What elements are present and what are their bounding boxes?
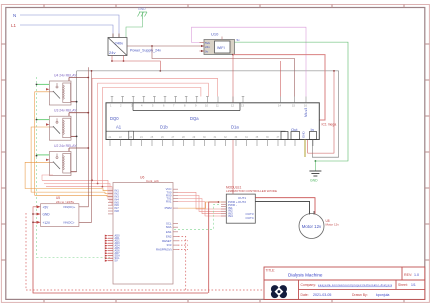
L298 top pin stub <box>232 190 234 194</box>
U6 controller pcb <box>113 176 173 284</box>
svg-text:GND: GND <box>302 131 306 139</box>
svg-text:DQ0: DQ0 <box>110 116 119 121</box>
wire red from wifi bottom to IC right pin <box>233 55 325 120</box>
svg-text:IN4: IN4 <box>228 214 233 218</box>
relay U3 <box>49 109 77 141</box>
IC1 top pins <box>111 97 306 103</box>
junction <box>159 70 161 72</box>
IC1 bottom pins <box>110 140 313 147</box>
svg-text:OUT2: OUT2 <box>238 200 246 204</box>
U6 right pin labels group1 <box>165 187 173 210</box>
svg-text:5v: 5v <box>237 38 241 42</box>
junction <box>36 84 38 86</box>
wire PSU bottom pin L to red rail <box>111 56 113 62</box>
svg-text:GND: GND <box>310 179 318 183</box>
relay U4 <box>49 74 77 106</box>
wire wifi bottom red down into IC top pin <box>232 55 234 103</box>
green dashed from U6 to L298 ENA <box>174 204 221 229</box>
IC1 bottom yellow stub <box>304 140 306 158</box>
junction <box>36 155 38 157</box>
wire red rail <box>112 61 160 71</box>
wire U5 +5V stub <box>33 207 37 223</box>
svg-text:VIN(DC)-: VIN(DC)- <box>63 221 75 225</box>
red dashed from U6 right down <box>178 237 186 291</box>
wire salmon bus 2 <box>44 183 98 185</box>
wire orange relay3 NO to U6 <box>25 162 113 190</box>
svg-text:Company:: Company: <box>301 283 317 287</box>
U6 right pin stubs group2 <box>173 224 178 250</box>
svg-text:1.0: 1.0 <box>414 273 419 277</box>
wire salmon U6 to L298 pins <box>178 192 226 209</box>
wire red hook into IC bottom <box>280 61 282 97</box>
wire green from wifi out, down right side, to gnd junction <box>235 42 349 161</box>
logo <box>271 285 287 298</box>
svg-text:L298 MOTOR CONTROLLER W/ODE: L298 MOTOR CONTROLLER W/ODE <box>226 189 277 193</box>
wire red through under IC down to L298 <box>232 140 234 195</box>
junction <box>218 201 220 203</box>
junction <box>32 221 34 223</box>
wire U5 +12V to bottom red <box>33 222 208 293</box>
junction <box>36 119 38 121</box>
svg-text:OUT4: OUT4 <box>245 216 253 220</box>
svg-text:SDA: SDA <box>166 225 172 229</box>
wire green stub relay3 <box>37 154 50 156</box>
svg-text:U6: U6 <box>140 176 144 180</box>
junction <box>32 213 34 215</box>
green dashed horizontal into U6 <box>37 257 111 259</box>
wifi module U10 <box>204 32 235 55</box>
junction <box>87 147 89 149</box>
wire darkred vertical feed to U5 VIN+ <box>79 67 88 207</box>
wifi top pin stub <box>221 37 223 40</box>
svg-text:1/1: 1/1 <box>411 283 416 287</box>
power supply U1 24v <box>108 38 127 56</box>
U5 dc-dc converter <box>41 196 79 227</box>
junction <box>151 45 153 47</box>
junction <box>91 179 93 181</box>
wire salmon bus 3 <box>46 186 102 188</box>
wifi left pin stubs <box>200 42 205 51</box>
IC1 bottom pin numbers <box>109 136 280 139</box>
svg-text:D1b: D1b <box>160 125 168 130</box>
title block <box>264 267 425 299</box>
svg-text:U3 24v RELAY: U3 24v RELAY <box>54 109 77 113</box>
svg-text:WIFI: WIFI <box>217 46 225 50</box>
svg-text:U2 24v RELAY: U2 24v RELAY <box>54 144 77 148</box>
svg-text:IC1 mega: IC1 mega <box>322 123 337 127</box>
svg-text:+5V: +5V <box>43 205 50 209</box>
IC1 arduino mega <box>106 103 319 140</box>
svg-text:Mk-v3: Mk-v3 <box>304 108 308 117</box>
svg-text:VIN(DC)+: VIN(DC)+ <box>63 205 76 209</box>
wire green stub to gnd <box>314 161 316 171</box>
junction <box>76 101 78 103</box>
svg-text:0v: 0v <box>205 50 209 54</box>
junction <box>91 70 93 72</box>
junction <box>102 186 104 188</box>
earth ground symbol <box>138 7 148 19</box>
wire magenta 5Vo from IC <box>192 27 307 96</box>
junction <box>333 70 335 72</box>
wire PSU 24v+ out to wifi module <box>127 45 200 47</box>
wire PSU bottom pin N to red rail <box>123 56 125 62</box>
svg-text:Motor 12v: Motor 12v <box>302 224 322 229</box>
junction <box>315 160 317 162</box>
svg-text:24v: 24v <box>205 45 210 49</box>
green dashed vertical net <box>36 77 38 258</box>
junction <box>123 60 125 62</box>
svg-text:240v: 240v <box>115 41 124 46</box>
relay dangling pin arrows <box>46 88 49 161</box>
L298 module <box>226 185 277 223</box>
wire red from junction down to bottom rail <box>209 202 219 293</box>
wire orange U6 PWM to L298 <box>178 202 226 208</box>
junction <box>87 77 89 79</box>
svg-text:DQa: DQa <box>190 116 199 121</box>
U6 left pin labels group1 <box>115 189 120 213</box>
junction <box>232 54 234 56</box>
wire orange relay1 NO to U6 <box>35 92 113 197</box>
wire L1 <box>20 25 113 34</box>
U6 right pin stubs group1 <box>173 189 178 208</box>
wire gray stubs to relay coil bottoms <box>71 101 77 103</box>
wire relay coil top connects <box>69 77 88 79</box>
junction <box>97 183 99 185</box>
wire U5 GND stub <box>33 213 37 215</box>
red dashed enclosure <box>26 213 300 290</box>
ground symbol GND <box>309 171 321 176</box>
junction <box>76 136 78 138</box>
wire N <box>20 15 119 34</box>
wire gray relay chain vertical <box>76 71 78 172</box>
junction <box>87 112 89 114</box>
svg-text:RASPPI(5V): RASPPI(5V) <box>156 247 172 251</box>
IC1 top pin numbers <box>110 104 307 108</box>
svg-text:+12V: +12V <box>43 221 51 225</box>
U6 left pin labels group2 <box>115 234 121 263</box>
wire junction down to rail <box>152 46 295 97</box>
power supply U1 pins top <box>113 34 119 38</box>
svg-text:GND: GND <box>43 213 51 217</box>
svg-text:N: N <box>13 13 16 18</box>
svg-text:A1: A1 <box>116 125 122 130</box>
wire black OUT2 to motor <box>255 201 309 214</box>
wire gray rail to IC bottom hook <box>77 71 339 157</box>
svg-text:Drawn By:: Drawn By: <box>352 293 368 297</box>
wire red U into IC bottom pin <box>308 71 334 153</box>
wire green stub relay2 <box>37 119 50 121</box>
svg-text:Date:: Date: <box>301 293 309 297</box>
svg-text:U10: U10 <box>211 32 219 37</box>
svg-text:L1: L1 <box>11 23 17 28</box>
svg-text:GND: GND <box>138 7 146 11</box>
wire darkred vertical feed to U5 VIN- <box>79 71 92 222</box>
wire relay coil top stubs <box>68 78 70 82</box>
svg-text:EN1: EN1 <box>166 230 172 234</box>
U5 left pin arrows <box>37 205 41 223</box>
svg-text:5V: 5V <box>115 259 118 263</box>
svg-text:24v: 24v <box>109 50 115 55</box>
U6 right pin labels group2 <box>156 222 172 252</box>
svg-text:24v to >24/5v: 24v to >24/5v <box>56 200 75 204</box>
svg-text:D1a: D1a <box>231 125 239 130</box>
svg-text:Power_Supply_24v: Power_Supply_24v <box>130 49 161 53</box>
wire orange relay2 NO to U6 <box>31 127 113 194</box>
svg-text:RX1: RX1 <box>166 200 172 204</box>
wire red OUT1 to motor <box>255 198 315 214</box>
wire green stub relay1 <box>37 83 50 85</box>
svg-text:PWM: PWM <box>165 206 173 210</box>
U6 left pin stubs group1 <box>108 191 113 214</box>
svg-text:IN8: IN8 <box>115 209 120 213</box>
wire earth to PSU <box>126 19 143 38</box>
motor U8 <box>299 211 339 239</box>
wire salmon stubs from relay3 bottom <box>42 175 53 180</box>
relay U2 <box>49 144 77 176</box>
svg-text:U4 24v RELAY: U4 24v RELAY <box>54 74 77 78</box>
wifi pin arrowheads <box>201 45 204 52</box>
svg-text:Dialysis Machine: Dialysis Machine <box>288 273 323 278</box>
L298 left pin stubs <box>221 202 226 216</box>
svg-text:Sheet:: Sheet: <box>398 283 408 287</box>
junction <box>111 60 113 62</box>
svg-text:REV:: REV: <box>404 273 412 277</box>
svg-text:2021-03-05: 2021-03-05 <box>313 293 331 297</box>
svg-text:TITLE:: TITLE: <box>266 269 276 273</box>
svg-text:easyeda.com/account/project/sc: easyeda.com/account/project/schematic-di… <box>318 283 393 287</box>
red dashed stubs U6 right pins <box>178 241 188 250</box>
wire salmon bus 1 relay area to IC and U6 <box>42 179 92 181</box>
U6 left pin stubs group2 with arrows <box>108 236 113 261</box>
svg-text:kponjula: kponjula <box>376 293 389 297</box>
svg-text:Motor 12v: Motor 12v <box>326 223 340 227</box>
